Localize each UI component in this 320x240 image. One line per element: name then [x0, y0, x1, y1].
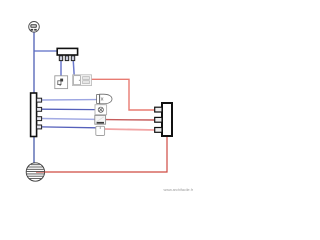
connector J1 (top 3-pin): [57, 48, 77, 60]
switch box S1: [55, 76, 68, 89]
wire blue from J1 pin1 down to box S1: [60, 60, 62, 76]
wire blue horizontal junction to connector J1: [34, 50, 57, 52]
connector J2 (left 4-pin): [31, 93, 42, 137]
switch box S2: [95, 115, 106, 124]
relay K1: [73, 75, 92, 86]
sensor box B2: [96, 126, 105, 135]
wire red motor M1 to J3 bottom: [36, 136, 167, 172]
motor M1: [26, 163, 44, 181]
wire red box B2 to J3 pin3: [104, 129, 154, 130]
wire blue J2 bottom to motor M1: [33, 137, 35, 164]
wire red box S2 to J3 pin2: [106, 119, 155, 121]
wire blue J2 pin1 to horn H1: [42, 99, 97, 101]
horn H1: [97, 94, 112, 104]
connector J3 (right 3-pin): [155, 103, 172, 136]
svg-text:www.archifacile.fr: www.archifacile.fr: [164, 188, 194, 192]
clock gauge B1: [29, 22, 40, 33]
wire blue from J1 pin3 down to relay K1: [73, 60, 74, 76]
lamp L1: [95, 105, 107, 115]
wire blue vertical from clock to connector J2: [33, 31, 35, 93]
wire blue J2 pin4 to box B2: [42, 126, 96, 129]
wire blue J2 pin2 to lamp L1: [42, 108, 96, 110]
wire red relay K1 to J3 pin1: [92, 79, 155, 110]
wire blue J2 pin3 to box S2: [42, 118, 95, 121]
